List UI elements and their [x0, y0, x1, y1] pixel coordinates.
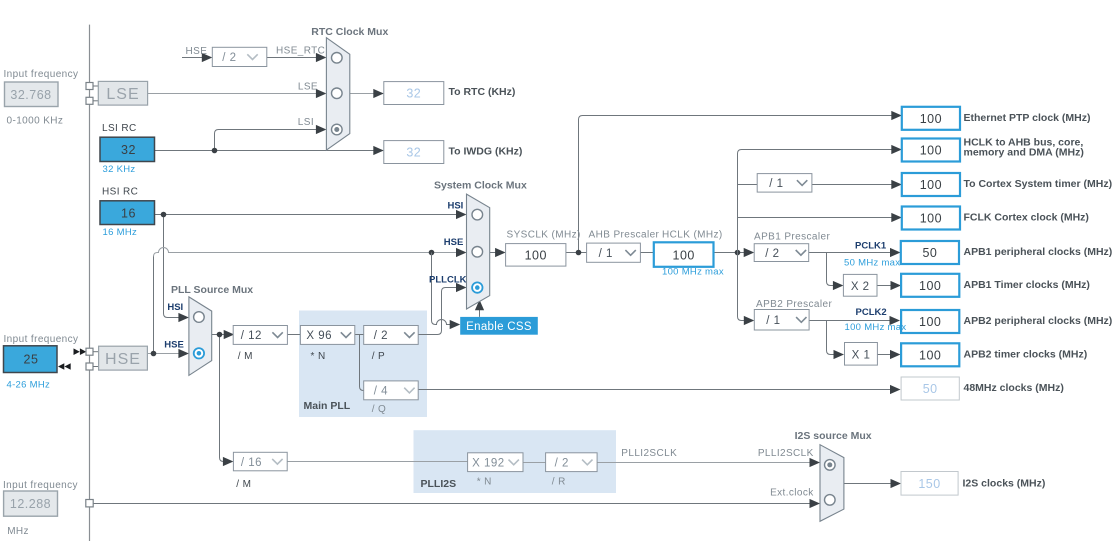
LSE oscillator box — [93, 81, 148, 105]
svg-text:MHz: MHz — [7, 526, 29, 537]
HSE pin squares — [86, 348, 93, 355]
wire: Ext clock from 12.288 input to I2S mux — [93, 499, 820, 508]
svg-text:Input frequency: Input frequency — [3, 480, 78, 491]
svg-text:To RTC (KHz): To RTC (KHz) — [449, 86, 516, 98]
APB1 prescaler dropdown /2 — [754, 244, 809, 262]
svg-text:50 MHz max: 50 MHz max — [844, 257, 900, 268]
svg-text:HSI: HSI — [167, 302, 183, 313]
APB2 prescaler dropdown /1 — [754, 310, 809, 331]
svg-text:Main PLL: Main PLL — [304, 400, 351, 412]
I2S source mux shape — [820, 445, 844, 522]
svg-text:25: 25 — [24, 353, 39, 367]
svg-text:16 MHz: 16 MHz — [103, 227, 138, 238]
svg-text:HSE: HSE — [164, 340, 184, 351]
X1 multiplier box — [845, 343, 878, 366]
I2S pin square — [86, 500, 93, 507]
wire: LSE from oscillator to RTC mux — [148, 89, 327, 98]
Ethernet PTP clock box — [902, 107, 960, 130]
HCLK to AHB box — [902, 139, 960, 162]
svg-text:HSI RC: HSI RC — [102, 187, 138, 198]
svg-text:50: 50 — [922, 246, 937, 260]
svg-text:100: 100 — [920, 112, 942, 126]
APB1 peripheral clocks box (50) — [901, 241, 959, 264]
svg-text:100: 100 — [920, 144, 942, 158]
PLLI2S background region — [414, 430, 617, 493]
wire: X192 to /R — [523, 462, 546, 464]
svg-text:* N: * N — [477, 476, 492, 487]
svg-text:HSE: HSE — [444, 237, 464, 248]
svg-text:32: 32 — [121, 143, 136, 157]
wire: I2S mux output to I2S clocks box — [844, 479, 901, 488]
wire: PLLI2S chain /16 to X192 — [287, 461, 467, 463]
svg-text:100 MHz max: 100 MHz max — [845, 322, 907, 333]
wire: system mux output to SYSCLK box — [490, 248, 506, 257]
svg-text:Input frequency: Input frequency — [4, 334, 79, 345]
svg-text:LSI RC: LSI RC — [102, 123, 137, 134]
svg-text:/ M: / M — [238, 351, 253, 362]
svg-text:32 KHz: 32 KHz — [103, 164, 136, 175]
I2S input frequency box 12.288 — [4, 491, 58, 516]
main input bus line — [89, 25, 91, 541]
APB1 timer clocks box — [901, 274, 959, 297]
wire: HCLK to APB1 prescaler with bus junction — [714, 248, 755, 257]
*N multiplier dropdown X96 — [300, 326, 354, 345]
svg-text:/ 1: / 1 — [599, 248, 613, 260]
svg-text:X 96: X 96 — [306, 330, 332, 342]
svg-text:X 192: X 192 — [472, 457, 505, 469]
svg-text:HSI: HSI — [447, 200, 463, 211]
svg-text:100: 100 — [919, 349, 941, 363]
svg-text:PLLI2SCLK: PLLI2SCLK — [621, 448, 677, 459]
svg-text:/ 2: / 2 — [222, 52, 236, 64]
svg-text:SYSCLK (MHz): SYSCLK (MHz) — [507, 230, 581, 241]
wire: *N to /P, branch down to /Q — [355, 335, 364, 391]
To RTC output box (32) — [384, 82, 444, 105]
svg-text:100: 100 — [920, 212, 942, 226]
LSE input frequency box 32.768 — [5, 82, 59, 107]
system clock mux shape — [467, 194, 490, 309]
svg-text:APB2 timer clocks (MHz): APB2 timer clocks (MHz) — [964, 349, 1088, 361]
svg-text:HSE: HSE — [186, 46, 208, 57]
I2S clocks box (150, disabled) — [901, 472, 958, 496]
svg-text:RTC Clock Mux: RTC Clock Mux — [311, 26, 388, 38]
svg-text:48MHz clocks (MHz): 48MHz clocks (MHz) — [964, 382, 1064, 394]
/M divider dropdown /12 — [233, 326, 287, 345]
svg-text:LSE: LSE — [106, 86, 139, 103]
AHB prescaler dropdown /1 — [587, 243, 641, 262]
svg-text:32.768: 32.768 — [10, 88, 51, 102]
RTC clock mux shape — [326, 38, 349, 150]
48MHz clocks box (50, disabled) — [901, 377, 959, 400]
wire: Enable CSS up arrow into system mux — [475, 300, 484, 317]
svg-text:/ 2: / 2 — [765, 248, 779, 260]
svg-text:HCLK (MHz): HCLK (MHz) — [662, 230, 723, 241]
HSE oscillator box — [93, 346, 147, 370]
svg-text:/ R: / R — [552, 476, 566, 487]
svg-text:/ 2: / 2 — [374, 330, 388, 342]
svg-text:System Clock Mux: System Clock Mux — [434, 179, 527, 191]
APB2 peripheral clocks box — [901, 310, 959, 333]
svg-text:X 2: X 2 — [851, 281, 870, 293]
wire: AHB prescaler to HCLK box — [640, 252, 653, 254]
wire: LSI to IWDG with branch to RTC mux — [155, 125, 384, 155]
svg-text:/ 2: / 2 — [555, 457, 569, 469]
wire: APB2 /1 output to APB2 peripheral box, branch to X1 — [809, 316, 900, 359]
HCLK box (100) blue — [654, 242, 714, 266]
svg-text:I2S clocks (MHz): I2S clocks (MHz) — [963, 477, 1046, 489]
svg-text:/ M: / M — [236, 479, 251, 490]
wire: /M to *N — [287, 334, 300, 336]
wire: cortex /1 to box — [812, 180, 902, 189]
svg-text:LSE: LSE — [298, 81, 318, 92]
svg-text:PCLK1: PCLK1 — [855, 241, 887, 252]
svg-text:Ext.clock: Ext.clock — [770, 487, 814, 498]
FCLK cortex box — [902, 207, 960, 230]
PLLI2S /M divider dropdown /16 (disabled) — [233, 452, 287, 471]
svg-text:To Cortex System timer (MHz): To Cortex System timer (MHz) — [964, 178, 1113, 190]
wire: X1 to APB2 timer box — [877, 350, 900, 359]
Main PLL background region — [299, 311, 427, 418]
svg-text:PLLCLK: PLLCLK — [429, 274, 467, 285]
HSI RC oscillator box (16) — [100, 201, 155, 225]
/Q divider dropdown /4 (disabled) — [364, 381, 419, 400]
svg-text:Input frequency: Input frequency — [4, 69, 79, 80]
svg-text:PLL Source Mux: PLL Source Mux — [171, 284, 253, 296]
svg-text:50: 50 — [923, 382, 938, 396]
svg-text:APB2 Prescaler: APB2 Prescaler — [756, 299, 832, 310]
wire: HSI to system clock mux with branch down to PLL mux — [155, 210, 467, 322]
svg-text:* N: * N — [311, 351, 326, 362]
svg-text:/ 12: / 12 — [241, 330, 262, 342]
svg-text:HSE: HSE — [105, 351, 141, 368]
svg-text:32: 32 — [406, 146, 421, 160]
svg-text:PCLK2: PCLK2 — [856, 307, 887, 318]
wire: SYSCLK to AHB prescaler with Ethernet branch up — [566, 111, 902, 255]
Enable CSS button — [460, 317, 538, 335]
svg-text:To IWDG (KHz): To IWDG (KHz) — [449, 146, 523, 158]
svg-text:X 1: X 1 — [852, 349, 871, 361]
svg-text:AHB Prescaler: AHB Prescaler — [589, 230, 660, 241]
PLLI2S *N multiplier dropdown X192 (disabled) — [468, 453, 523, 472]
HSE input frequency box 25 — [4, 346, 58, 373]
svg-text:100 MHz max: 100 MHz max — [662, 267, 724, 278]
svg-text:HSE_RTC: HSE_RTC — [276, 45, 325, 56]
svg-text:0-1000 KHz: 0-1000 KHz — [7, 116, 64, 127]
svg-text:APB1 peripheral clocks (MHz): APB1 peripheral clocks (MHz) — [964, 246, 1113, 258]
svg-text:100: 100 — [673, 248, 695, 262]
wire: RTC divider out to RTC mux (HSE_RTC) — [267, 53, 327, 62]
wire: CSS branch from HSE line down to Enable CSS button (hop over PLLCLK line) — [432, 253, 461, 330]
svg-text:100: 100 — [920, 178, 942, 192]
wire: bus to FCLK box — [738, 213, 902, 222]
wire: /Q output to 48MHz clocks box — [418, 385, 900, 394]
svg-text:APB2 peripheral clocks (MHz): APB2 peripheral clocks (MHz) — [964, 315, 1113, 327]
svg-text:APB1 Timer clocks (MHz): APB1 Timer clocks (MHz) — [964, 279, 1090, 291]
svg-text:100: 100 — [919, 279, 941, 293]
wire: vertical HCLK bus — [738, 150, 895, 253]
svg-text:Enable CSS: Enable CSS — [466, 321, 532, 333]
wire: HSE stub to RTC divider — [182, 53, 212, 62]
wire: HSE to PLL mux with branch up to system clock mux (hop over HSI line) — [147, 248, 466, 359]
/P divider dropdown /2 — [364, 326, 419, 345]
X2 multiplier box — [843, 274, 877, 296]
svg-text:PLLI2S: PLLI2S — [421, 478, 457, 490]
double arrows in — [58, 363, 71, 370]
svg-text:memory and DMA (MHz): memory and DMA (MHz) — [964, 147, 1084, 159]
arrow into HCLK AHB box — [891, 145, 902, 154]
RTC HSE divider dropdown /2 — [212, 47, 266, 66]
wire: RTC mux output to RTC box — [350, 89, 384, 98]
wire: bus down to APB2 prescaler — [738, 253, 747, 321]
svg-text:100: 100 — [525, 248, 547, 262]
wire: APB1 /2 output to APB1 peripheral box, branch to X2 — [809, 248, 901, 290]
svg-text:150: 150 — [918, 477, 940, 491]
svg-text:/ Q: / Q — [372, 404, 387, 415]
svg-text:FCLK Cortex clock (MHz): FCLK Cortex clock (MHz) — [964, 212, 1089, 224]
APB2 timer clocks box — [901, 343, 959, 366]
svg-text:/ 1: / 1 — [766, 315, 780, 327]
svg-text:/ 1: / 1 — [769, 178, 783, 190]
SYSCLK box (100) — [506, 244, 566, 267]
double arrows out — [74, 348, 87, 355]
PLLI2S /R divider dropdown /2 (disabled) — [546, 453, 598, 472]
To IWDG output box (32) — [384, 141, 444, 164]
svg-text:I2S source Mux: I2S source Mux — [795, 430, 872, 442]
svg-text:PLLI2SCLK: PLLI2SCLK — [758, 448, 814, 459]
svg-text:/ 4: / 4 — [374, 386, 388, 398]
wire: X2 to APB1 timer box — [877, 281, 901, 290]
PLL source mux shape — [189, 297, 212, 376]
svg-text:/ P: / P — [372, 351, 385, 362]
Cortex system timer box — [902, 173, 960, 196]
svg-text:16: 16 — [121, 206, 136, 220]
svg-text:Ethernet PTP clock (MHz): Ethernet PTP clock (MHz) — [964, 112, 1091, 124]
LSI RC oscillator box (32) — [100, 137, 155, 161]
cortex /1 prescaler dropdown — [757, 174, 812, 193]
svg-text:/ 16: / 16 — [241, 457, 262, 469]
svg-text:4-26 MHz: 4-26 MHz — [7, 380, 51, 391]
LSE pin squares — [86, 83, 93, 90]
wire: bus to cortex /1 prescaler — [738, 184, 758, 186]
svg-text:12.288: 12.288 — [10, 497, 51, 511]
wire: PLLI2SCLK to I2S mux — [597, 458, 820, 467]
svg-text:100: 100 — [919, 315, 941, 329]
svg-text:APB1 Prescaler: APB1 Prescaler — [754, 231, 830, 242]
svg-text:32: 32 — [406, 87, 421, 101]
svg-text:LSI: LSI — [298, 117, 314, 128]
wire: PLLCLK from /P up into system clock mux — [418, 283, 466, 335]
wire: PLL mux output to /M divider, branch down to PLLI2S /M — [212, 330, 235, 466]
